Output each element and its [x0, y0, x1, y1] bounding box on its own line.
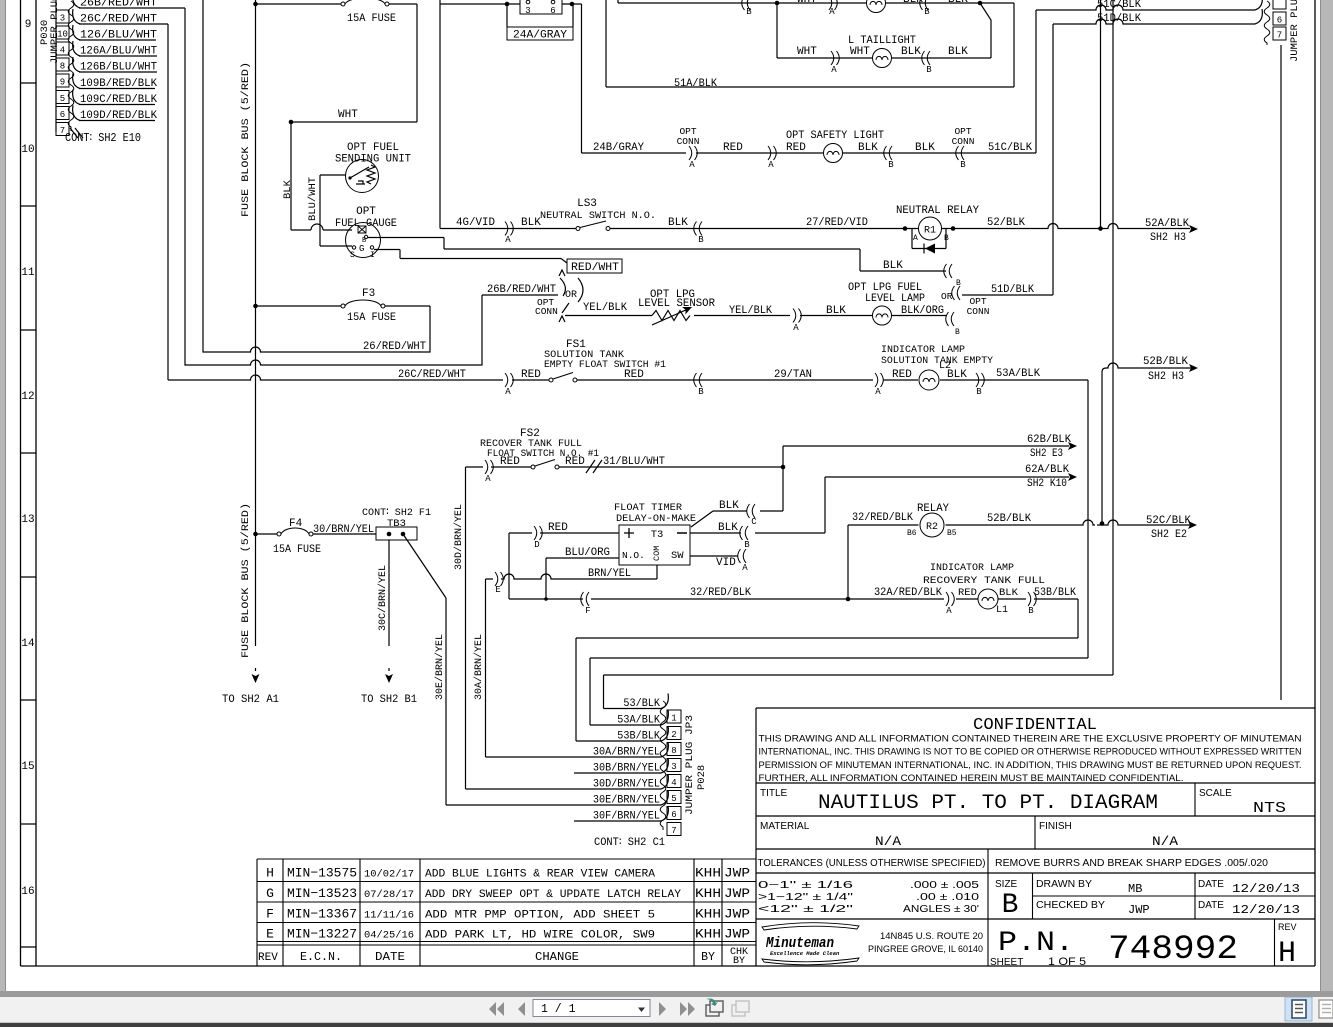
svg-text:RED: RED: [624, 369, 644, 381]
svg-text:3: 3: [60, 14, 65, 24]
svg-text:F3: F3: [362, 288, 375, 300]
svg-text:B: B: [1002, 890, 1019, 921]
svg-text:26B/RED/WHT: 26B/RED/WHT: [80, 0, 157, 10]
svg-text:RED: RED: [958, 587, 977, 599]
wire 53/BLK net: [604, 0, 1114, 709]
lamp OPT SAFETY LIGHT: [824, 144, 843, 163]
svg-text:B: B: [744, 540, 750, 550]
svg-text:6: 6: [671, 810, 676, 820]
wire sensor row: [565, 315, 947, 317]
node bus-F3: [253, 304, 258, 309]
connector hook on wire 126B/BLU/WHT: [73, 57, 80, 72]
svg-text:JUMPER PLUG JP3: JUMPER PLUG JP3: [684, 715, 696, 815]
svg-text:52B/BLK: 52B/BLK: [987, 513, 1031, 525]
svg-text:A: A: [946, 606, 952, 616]
svg-text:5: 5: [671, 794, 676, 804]
wire 52/BLK bus from sheet top: [1100, 0, 1102, 229]
pin 1 of JP3: [667, 710, 681, 723]
wire F2 to connector: [389, 3, 417, 5]
toolbar page input box: [533, 1000, 650, 1017]
connector splice double (FS2): [586, 460, 602, 473]
toolbar prev-page button: [518, 1002, 525, 1016]
wire T3- BLK lower: [690, 532, 825, 534]
svg-text:CONFIDENTIAL: CONFIDENTIAL: [973, 716, 1097, 735]
lamp L2: [919, 370, 939, 390]
connector splice B (safety): [884, 146, 892, 160]
connector hook on wire 26B/RED/WHT: [73, 0, 80, 8]
svg-text:DATE: DATE: [375, 951, 405, 964]
svg-text:BLK: BLK: [883, 260, 903, 272]
relay R1: [919, 217, 942, 240]
svg-text:WHT: WHT: [338, 109, 358, 121]
svg-text:JWP: JWP: [1128, 903, 1150, 917]
viewer gutters and toolbar: [0, 0, 6, 991]
connector splice B (T3): [740, 526, 748, 540]
connector splice A (L2): [875, 373, 883, 387]
pin 8 of JP3: [667, 743, 681, 756]
svg-text:24A/GRAY: 24A/GRAY: [513, 30, 567, 42]
connector hook (right jumper pin6): [1255, 0, 1262, 10]
svg-text:32A/RED/BLK: 32A/RED/BLK: [874, 587, 942, 599]
svg-text:SIZE: SIZE: [995, 879, 1018, 890]
svg-text:P028: P028: [696, 765, 708, 790]
connector splice B (branch): [944, 264, 952, 278]
svg-text:BY: BY: [701, 951, 715, 964]
svg-text:52/BLK: 52/BLK: [987, 217, 1025, 229]
wire 26C/RED/WHT from P030: [79, 23, 168, 25]
pin 4 of JP3: [667, 775, 681, 788]
svg-text:53/BLK: 53/BLK: [623, 698, 660, 710]
connector right jumper edge: [1280, 45, 1282, 700]
svg-text:26/RED/WHT: 26/RED/WHT: [363, 341, 426, 353]
svg-text:N.O.: N.O.: [622, 550, 645, 561]
wire 52B/BLK: [1102, 363, 1192, 523]
wire RED to T3+: [509, 532, 619, 534]
wire 24B/GRAY: [582, 152, 687, 154]
toolbar disabled icon: [732, 1005, 745, 1016]
wire F4 to TB3: [313, 533, 376, 535]
wire 30B/BRN/YEL to JP3: [574, 772, 661, 774]
svg-text:CHANGE: CHANGE: [535, 951, 579, 964]
minuteman logo swoosh top: [762, 923, 859, 930]
svg-text:C: C: [751, 517, 757, 527]
pin box above (clipped): [1273, 0, 1286, 9]
svg-text:P.N.: P.N.: [998, 928, 1074, 959]
svg-text:FURTHER, ALL INFORMATION CONTA: FURTHER, ALL INFORMATION CONTAINED HEREI…: [759, 773, 1184, 783]
connector splice A (FS2): [485, 460, 493, 474]
svg-text:RECOVERY TANK FULL: RECOVERY TANK FULL: [923, 575, 1045, 587]
connector splice F: [581, 592, 589, 606]
svg-text:3: 3: [525, 6, 530, 16]
svg-text:NEUTRAL RELAY: NEUTRAL RELAY: [896, 205, 979, 217]
wire 26C/RED/WHT vertical run: [167, 24, 169, 380]
wire BRN/YEL: [486, 565, 658, 579]
svg-text:JUMPER PLU: JUMPER PLU: [1289, 0, 1301, 62]
svg-text:D: D: [534, 540, 539, 550]
svg-text:JWP: JWP: [724, 887, 750, 901]
svg-text:BLK: BLK: [858, 142, 878, 154]
svg-text:15A FUSE: 15A FUSE: [273, 544, 321, 556]
arrowhead 52B/BLK: [1189, 364, 1198, 372]
svg-text:ADD BLUE LIGHTS & REAR VIEW CA: ADD BLUE LIGHTS & REAR VIEW CAMERA: [425, 869, 655, 881]
svg-text:LEVEL LAMP: LEVEL LAMP: [865, 293, 925, 305]
svg-text:26C/RED/WHT: 26C/RED/WHT: [398, 369, 466, 381]
connector splice B (LS3): [694, 222, 702, 236]
node bus 52 junction: [1098, 226, 1103, 231]
terminal block TB3: [376, 527, 417, 540]
svg-text:WHT: WHT: [850, 46, 870, 58]
wire 51C/BLK: [1036, 5, 1255, 10]
svg-text:TB3: TB3: [387, 518, 406, 530]
connector plug at 24A: [520, 0, 562, 14]
connector splice D (T3+): [534, 526, 542, 540]
svg-text:30D/BRN/YEL: 30D/BRN/YEL: [593, 779, 660, 791]
toolbar first-page button: [489, 1002, 504, 1016]
svg-text:2: 2: [671, 730, 676, 740]
connector hook on wire 126/BLU/WHT: [73, 25, 80, 40]
node relay R1 pin A: [903, 226, 908, 231]
svg-text:15A FUSE: 15A FUSE: [347, 13, 396, 25]
svg-text:4: 4: [60, 46, 65, 56]
svg-text:DRAWN BY: DRAWN BY: [1036, 879, 1092, 890]
svg-text:RED: RED: [892, 369, 912, 381]
svg-text:0−1" ± 1/16: 0−1" ± 1/16: [758, 880, 854, 891]
sending unit wiper: [350, 167, 369, 178]
revision table frame: [257, 859, 756, 966]
svg-text:FUSE BLOCK BUS (5/RED): FUSE BLOCK BUS (5/RED): [240, 503, 252, 658]
wire L taillight return: [980, 3, 991, 58]
connector hook on wire 109B/RED/BLK: [73, 74, 80, 89]
wire 62A riser: [824, 477, 826, 533]
arrowhead 52A/BLK: [1189, 225, 1198, 233]
svg-text:.00 ± .010: .00 ± .010: [916, 892, 980, 903]
connector P030 body squiggle: [68, 1, 74, 131]
svg-text:REMOVE BURRS AND BREAK SHARP E: REMOVE BURRS AND BREAK SHARP EDGES .005/…: [995, 858, 1268, 869]
node TB3-2: [401, 532, 406, 537]
svg-text:PERMISSION OF MINUTEMAN INTERN: PERMISSION OF MINUTEMAN INTERNATIONAL, I…: [759, 760, 1302, 770]
connector hook on wire 126A/BLU/WHT: [73, 41, 80, 56]
svg-text:16: 16: [21, 886, 34, 898]
minuteman logo swoosh bottom: [762, 958, 859, 965]
svg-text:A: A: [485, 474, 491, 484]
pin 7 strain marks: [70, 128, 83, 138]
svg-text:9: 9: [25, 19, 32, 31]
svg-text:A: A: [913, 234, 918, 243]
svg-text:B: B: [960, 160, 966, 170]
connector hook on wire 26C/RED/WHT: [73, 9, 80, 24]
svg-text:RED: RED: [548, 522, 568, 534]
svg-text:MIN−13367: MIN−13367: [287, 906, 357, 921]
connector hook 53B/BLK (JP3): [661, 726, 668, 741]
svg-text:07/28/17: 07/28/17: [364, 889, 414, 901]
connector splice B (L1): [1028, 592, 1036, 606]
connector hook (right jumper pin7): [1255, 9, 1262, 24]
svg-text:1 OF 5: 1 OF 5: [1048, 956, 1086, 968]
wire 51D row: [962, 294, 1053, 296]
svg-text:TO SH2 B1: TO SH2 B1: [361, 694, 417, 706]
svg-text:DATE: DATE: [1198, 900, 1224, 911]
switch LS3: [576, 227, 580, 231]
pin 7 of P030: [56, 123, 69, 136]
svg-text:BLK: BLK: [718, 522, 738, 534]
svg-text:5: 5: [60, 94, 65, 104]
svg-text:04/25/16: 04/25/16: [364, 930, 414, 942]
gauge pin S: [352, 246, 355, 249]
svg-text:27/RED/VID: 27/RED/VID: [806, 217, 868, 229]
svg-text:53A/BLK: 53A/BLK: [617, 715, 660, 727]
wire 51D riser: [1052, 24, 1054, 295]
svg-text:6: 6: [1277, 16, 1282, 26]
pin 9 of P030: [56, 74, 69, 87]
svg-text:E: E: [266, 927, 274, 942]
wire gauge B out: [368, 238, 860, 250]
label box 24A/GRAY: [507, 27, 573, 40]
svg-text:A: A: [742, 563, 748, 573]
connector splice A (L tail): [831, 51, 839, 65]
svg-text:30E/BRN/YEL: 30E/BRN/YEL: [593, 795, 660, 807]
svg-text:OPT: OPT: [356, 206, 376, 218]
wire FS2 row: [466, 466, 784, 468]
wire 30D/BRN/YEL riser: [465, 467, 467, 789]
svg-text:BLK: BLK: [947, 369, 967, 381]
svg-text:BLK: BLK: [901, 46, 921, 58]
svg-text:SH2 H3: SH2 H3: [1148, 371, 1184, 383]
svg-text:11/11/16: 11/11/16: [364, 909, 414, 921]
svg-text:51D/BLK: 51D/BLK: [991, 284, 1034, 296]
svg-text:DELAY-ON-MAKE: DELAY-ON-MAKE: [616, 513, 696, 525]
svg-text:14: 14: [21, 638, 35, 650]
svg-text:10/02/17: 10/02/17: [364, 869, 414, 881]
connector hook 53A/BLK (JP3): [661, 710, 668, 725]
connector splice C: [747, 504, 755, 518]
svg-text:R2: R2: [926, 522, 938, 533]
svg-text:SW: SW: [671, 550, 684, 562]
svg-text:YEL/BLK: YEL/BLK: [729, 305, 772, 317]
svg-text:748992: 748992: [1108, 931, 1238, 969]
svg-text:15A FUSE: 15A FUSE: [347, 312, 396, 324]
label box RED/WHT: [567, 259, 622, 273]
fuse F3: [341, 304, 345, 308]
svg-text:L1: L1: [996, 605, 1008, 616]
svg-text:JWP: JWP: [724, 867, 750, 881]
svg-text:NEUTRAL SWITCH N.O.: NEUTRAL SWITCH N.O.: [540, 210, 656, 222]
svg-text:SOLUTION TANK EMPTY: SOLUTION TANK EMPTY: [881, 355, 994, 367]
svg-text:CONT∶ SH2 E10: CONT∶ SH2 E10: [65, 132, 141, 145]
wire 53B/BLK net: [576, 599, 1078, 741]
connector OPT CONN 51D-side: [952, 286, 960, 300]
svg-text:VID: VID: [716, 557, 736, 569]
pin 7 of JP3: [667, 823, 681, 836]
wire 126/BLU/WHT from P030: [79, 39, 156, 41]
svg-text:WHT: WHT: [797, 46, 817, 58]
svg-text:126B/BLU/WHT: 126B/BLU/WHT: [80, 62, 157, 74]
svg-text:ADD PARK LT, HD WIRE COLOR, SW: ADD PARK LT, HD WIRE COLOR, SW9: [425, 930, 655, 942]
svg-text:BLK: BLK: [719, 500, 739, 512]
svg-text:B: B: [926, 65, 932, 75]
node relay R1 pin B: [951, 226, 956, 231]
connector OPT CONN (safety out): [956, 146, 964, 160]
gauge pin I: [370, 246, 373, 249]
svg-text:BLK: BLK: [668, 217, 688, 229]
title block frame: [756, 708, 1315, 966]
wire 62A/BLK: [825, 476, 1069, 478]
connector right jumper body: [1264, 1, 1270, 45]
svg-text:A: A: [793, 323, 799, 333]
svg-text:OPT FUEL: OPT FUEL: [347, 142, 399, 154]
svg-text:B: B: [1028, 606, 1034, 616]
svg-text:B: B: [956, 279, 961, 288]
lamp OPT LPG FUEL LEVEL LAMP: [873, 306, 892, 325]
svg-text:A: A: [829, 7, 835, 17]
svg-text:B: B: [698, 235, 704, 245]
wire 52/BLK: [942, 224, 1191, 229]
wire fuse block bus: [255, 0, 257, 646]
svg-text:H: H: [266, 866, 274, 881]
svg-text:31/BLU/WHT: 31/BLU/WHT: [603, 456, 665, 468]
svg-text:RED: RED: [500, 456, 520, 468]
connector hook 30F/BRN/YEL (JP3): [661, 806, 668, 821]
svg-text:TITLE: TITLE: [760, 788, 788, 799]
svg-text:SH2 H3: SH2 H3: [1150, 232, 1186, 244]
svg-text:B6: B6: [907, 529, 917, 538]
caret up 2 (OR): [559, 316, 565, 322]
svg-text:4: 4: [671, 778, 676, 788]
wire 30C/BRN/YEL: [388, 540, 390, 646]
gauge body: [346, 223, 381, 258]
svg-text:A: A: [689, 160, 695, 170]
svg-text:30A/BRN/YEL: 30A/BRN/YEL: [473, 634, 485, 700]
svg-text:CHECKED BY: CHECKED BY: [1036, 900, 1105, 911]
wire to 24A plug: [440, 3, 582, 5]
svg-text:8: 8: [671, 746, 676, 756]
svg-text:109C/RED/BLK: 109C/RED/BLK: [80, 94, 157, 106]
svg-text:Excellence Made Clean: Excellence Made Clean: [770, 950, 840, 957]
toolbar single-page-view button (active): [1285, 997, 1312, 1021]
wire 126B/BLU/WHT from P030: [79, 71, 157, 73]
svg-text:A: A: [505, 387, 511, 397]
wire R taillight row: [618, 0, 1014, 3]
wire L taillight row: [777, 57, 991, 59]
svg-text:RED: RED: [521, 369, 541, 381]
svg-text:KHH: KHH: [695, 867, 721, 881]
wire 51C riser: [1035, 10, 1037, 153]
pin 2 of JP3: [667, 727, 681, 740]
wire T3 SW VID: [690, 555, 738, 557]
svg-text:OR: OR: [565, 290, 577, 301]
arrowhead 62B/BLK: [1068, 442, 1077, 450]
svg-text:A: A: [875, 387, 881, 397]
svg-text:A: A: [831, 65, 837, 75]
connector hook 30D/BRN/YEL (JP3): [661, 774, 668, 789]
row boundary ticks: [21, 83, 37, 947]
svg-text:BLK: BLK: [948, 0, 968, 6]
svg-text:BLK: BLK: [521, 217, 541, 229]
node 32/32A junction: [846, 597, 851, 602]
wire 32/RED/BLK: [509, 598, 1078, 600]
svg-text:F: F: [585, 606, 590, 616]
svg-text:F: F: [266, 906, 274, 921]
svg-text:G: G: [266, 886, 274, 901]
wire R2 row: [848, 520, 1191, 525]
lamp R taillight (clipped): [867, 0, 886, 13]
lamp L taillight: [873, 49, 892, 68]
svg-text:BLU/ORG: BLU/ORG: [565, 547, 610, 559]
svg-text:32/RED/BLK: 32/RED/BLK: [690, 587, 751, 599]
svg-text:WHT: WHT: [797, 0, 817, 6]
svg-text:10: 10: [21, 144, 34, 156]
hop gauge feed over BLU/WHT: [311, 224, 323, 230]
title block inner dividers: [988, 783, 1315, 966]
fuse F4: [277, 532, 281, 536]
pin 3 of JP3: [667, 759, 681, 772]
svg-text:ADD MTR PMP OPTION, ADD SHEET: ADD MTR PMP OPTION, ADD SHEET 5: [425, 909, 655, 921]
wire 30F/BRN/YEL to JP3: [574, 820, 661, 822]
wire BLU/ORG: [546, 558, 619, 599]
gauge pin B: [364, 235, 367, 238]
svg-text:4G/VID: 4G/VID: [456, 217, 495, 229]
wire WHT: [291, 121, 417, 123]
svg-text:I: I: [370, 251, 375, 260]
wire 53A/BLK net: [590, 658, 1088, 725]
wire 51A/BLK: [606, 0, 1014, 87]
svg-text:JWP: JWP: [724, 907, 750, 921]
wire 30A/BRN/YEL riser: [485, 579, 487, 757]
toolbar rotate/new-window icon: [706, 1005, 719, 1016]
pin 3 of P030: [56, 10, 69, 23]
arrowhead 62A/BLK: [1068, 473, 1077, 481]
wire 126A/BLU/WHT from P030: [79, 55, 157, 57]
wire 30E/BRN/YEL to JP3: [446, 804, 661, 806]
svg-text:BRN/YEL: BRN/YEL: [588, 568, 631, 580]
svg-text:52B/BLK: 52B/BLK: [1143, 356, 1188, 368]
wire 53A riser: [1087, 380, 1089, 658]
svg-text:53A/BLK: 53A/BLK: [996, 368, 1040, 380]
connector splice A (LPG lamp): [793, 309, 801, 323]
wire bus to F3: [256, 305, 342, 307]
svg-text:TOLERANCES (UNLESS OTHERWISE S: TOLERANCES (UNLESS OTHERWISE SPECIFIED): [758, 858, 986, 869]
svg-text:B: B: [746, 7, 752, 17]
connector splice A (VID): [738, 549, 746, 563]
arrowhead TO SH2 B1: [385, 674, 393, 683]
toolbar last-page button: [680, 1002, 695, 1016]
resistor OPT LPG LEVEL SENSOR: [652, 311, 690, 321]
svg-text:1 / 1: 1 / 1: [541, 1003, 576, 1016]
wire stubs to 24A/GRAY label box: [507, 4, 573, 27]
svg-text:CONN: CONN: [535, 306, 558, 317]
svg-text:51C/BLK: 51C/BLK: [988, 142, 1032, 154]
connector hook 30A/BRN/YEL (JP3): [661, 742, 668, 757]
pin 6 of JP3: [667, 807, 681, 820]
label - (T3): [677, 532, 687, 534]
svg-text:BLK: BLK: [282, 179, 294, 199]
wire drop to WHT: [416, 4, 418, 122]
svg-text:8: 8: [60, 62, 65, 72]
svg-text:52A/BLK: 52A/BLK: [1145, 218, 1189, 230]
wire gauge S: [320, 245, 352, 247]
wire BLK relay branch: [860, 249, 946, 271]
svg-text:MIN−13575: MIN−13575: [287, 866, 357, 881]
svg-text:53B/BLK: 53B/BLK: [617, 731, 660, 743]
svg-text:62B/BLK: 62B/BLK: [1027, 434, 1071, 446]
svg-text:CONN: CONN: [967, 306, 990, 317]
toolbar next-page button: [659, 1002, 666, 1016]
gauge meter glyph: [358, 226, 366, 233]
svg-text:RED: RED: [786, 142, 806, 154]
wire TB3 diagonal to 30E: [403, 534, 446, 805]
wire OR diagonal: [562, 303, 569, 313]
svg-text:MB: MB: [1128, 882, 1142, 896]
svg-text:B5: B5: [947, 529, 957, 538]
